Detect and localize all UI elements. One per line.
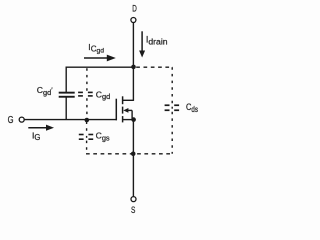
capacitor Cds plates (dashed)	[165, 104, 170, 106]
current arrow ICgd	[84, 57, 108, 59]
capacitor Cgd dashed lead lower	[86, 98, 88, 119]
svg-text:D: D	[132, 3, 137, 13]
transistor Q1 body vertical	[131, 110, 133, 119]
svg-text:IG: IG	[32, 130, 40, 142]
capacitor Cgs dashed lead upper	[86, 122, 88, 134]
svg-text:Cgs: Cgs	[96, 131, 110, 143]
capacitor Cds center dash	[172, 107, 173, 109]
wire: source vertical	[132, 120, 134, 197]
svg-text:G: G	[8, 114, 14, 125]
node: gate junction dot	[85, 118, 90, 123]
terminal D circle	[131, 18, 136, 23]
capacitor Cgs dashed lead lower	[86, 141, 88, 154]
transistor Q1 channel segment bottom	[122, 116, 124, 122]
transistor Q1 body arrow head	[123, 108, 128, 113]
wire: gate horizontal	[24, 119, 117, 121]
transistor Q1 drain lead	[123, 99, 134, 101]
wire: top horizontal	[66, 66, 133, 68]
node: source dot	[131, 117, 136, 122]
capacitor Cds dashed lead lower	[171, 112, 173, 154]
node: source junction dot bottom	[131, 152, 136, 157]
svg-text:S: S	[131, 205, 136, 215]
capacitor Cgs center dash	[86, 136, 87, 138]
transistor Q1 body arrow shaft	[128, 109, 133, 111]
wire: drain vertical	[132, 23, 134, 101]
current arrow Idrain	[141, 31, 143, 51]
wire: top dashed horizontal	[136, 66, 173, 68]
svg-text:Cgd: Cgd	[96, 89, 110, 101]
capacitor Cds dashed lead upper	[171, 67, 173, 104]
svg-text:Idrain: Idrain	[146, 35, 168, 47]
transistor Q1 channel segment top	[122, 96, 124, 104]
wire: left vertical upper	[65, 67, 67, 93]
current arrow IG	[28, 127, 47, 129]
transistor Q1 source lead	[123, 119, 134, 121]
capacitor Cgd plates (dashed)	[78, 92, 83, 94]
capacitor Cgd dashed lead upper	[86, 68, 88, 91]
transistor Q1 channel segment middle	[122, 107, 124, 114]
wire: left vertical lower	[65, 97, 67, 120]
node: drain junction dot	[131, 65, 136, 70]
transistor Q1 gate bar	[115, 99, 117, 121]
capacitor Cgd' plates	[59, 92, 75, 94]
terminal G circle	[19, 117, 24, 122]
wire: bottom dashed horizontal	[86, 153, 173, 155]
capacitor Cgs plates (dashed)	[79, 134, 84, 136]
terminal S circle	[131, 197, 136, 202]
svg-text:Cgd′: Cgd′	[37, 85, 53, 97]
